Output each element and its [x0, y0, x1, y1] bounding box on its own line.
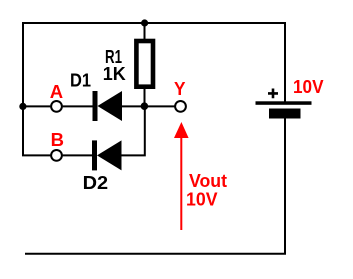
svg-text:D1: D1	[70, 70, 91, 91]
wire resistor bottom lead	[144, 87, 146, 106]
svg-text:Y: Y	[174, 78, 186, 99]
wire D2 up to output node	[122, 106, 145, 155]
node top junction	[141, 19, 148, 26]
wire resistor top lead	[144, 23, 146, 40]
wire top rail and left rail	[23, 23, 285, 155]
diode D2 triangle	[97, 140, 122, 170]
svg-text:A: A	[50, 81, 63, 102]
node output junction dot	[141, 102, 149, 110]
wire bottom rail and right rail	[25, 118, 285, 254]
node B terminal circle	[51, 150, 62, 161]
wire input B from left rail to circle	[22, 154, 50, 156]
wire D1 to Y circle	[122, 105, 175, 107]
svg-text:1K: 1K	[103, 63, 127, 84]
node A terminal circle	[51, 101, 62, 112]
diode D1 triangle	[98, 91, 123, 121]
Vout arrow stem	[180, 137, 182, 230]
svg-text:B: B	[51, 129, 64, 150]
battery positive plate	[256, 101, 312, 105]
battery plus sign	[268, 89, 278, 99]
Vout arrow head	[174, 122, 189, 138]
svg-text:10V: 10V	[293, 76, 324, 97]
svg-text:10V: 10V	[186, 188, 218, 209]
node left rail junction dot	[19, 103, 26, 110]
svg-text:D2: D2	[83, 172, 109, 193]
diode D1 cathode bar	[93, 91, 98, 121]
resistor R1	[136, 41, 153, 87]
diode D2 cathode bar	[92, 140, 97, 170]
battery negative plate	[269, 109, 301, 119]
node Y terminal circle	[175, 101, 186, 112]
wire input A to circle	[23, 105, 50, 107]
wire B circle to diode D2	[63, 154, 93, 156]
wire A circle to diode D1	[63, 105, 93, 107]
